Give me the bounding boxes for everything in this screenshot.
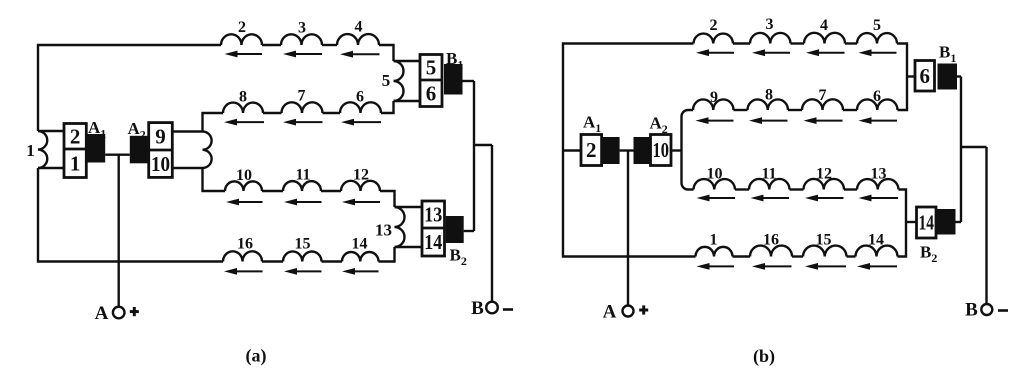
wire: B branch horizontal (a) bbox=[474, 144, 492, 146]
arrow under coil 8 (a) bbox=[224, 119, 264, 126]
coil 10 (a) bbox=[225, 181, 262, 191]
arrow under coil 16 (b) bbox=[752, 263, 792, 270]
brush B2 (a, black) bbox=[446, 216, 464, 243]
coil 7 (b) bbox=[802, 99, 843, 110]
svg-text:13: 13 bbox=[871, 166, 887, 183]
wire: (b) stub box 10 to bracket bbox=[671, 149, 682, 151]
arrow under coil 7 (b) bbox=[804, 117, 843, 124]
coil 2 (b) bbox=[694, 34, 734, 44]
coil 11 (b) bbox=[749, 179, 790, 190]
wire: B1 brush lead right (a) bbox=[463, 80, 475, 82]
wire: (a) row4 seg 15-16 bbox=[262, 260, 283, 262]
svg-text:9: 9 bbox=[710, 89, 718, 106]
wire: (a) row2 seg 7-8 bbox=[263, 112, 282, 114]
coil 16 (b) bbox=[750, 246, 792, 257]
svg-text:1: 1 bbox=[710, 232, 718, 249]
wire: (a) top row segment + left bus upper bbox=[38, 45, 221, 131]
arrow under coil 3 (b) bbox=[752, 49, 790, 56]
wire: (b) top seg 4-5 bbox=[845, 42, 857, 44]
svg-text:10: 10 bbox=[151, 152, 170, 176]
svg-text:B2: B2 bbox=[920, 243, 937, 266]
svg-text:15: 15 bbox=[816, 232, 832, 249]
wire: A terminal lead (b) bbox=[627, 151, 629, 306]
coil 5 (b) bbox=[857, 33, 897, 43]
svg-text:5: 5 bbox=[426, 55, 437, 79]
arrow under coil 9 (b) bbox=[696, 117, 734, 124]
coil 10 (b) bbox=[694, 179, 736, 189]
svg-text:A: A bbox=[603, 302, 617, 323]
svg-text:6: 6 bbox=[920, 64, 931, 88]
svg-text:2: 2 bbox=[710, 17, 718, 34]
wire: (b) top-right corner down to row2 bbox=[897, 44, 907, 111]
coil 3 (a) bbox=[281, 34, 322, 45]
coil 8 (a) bbox=[223, 103, 263, 113]
brush B2 (b, black) bbox=[937, 209, 956, 235]
brush A1 (b, black) bbox=[603, 137, 620, 164]
commutator segments 5/6 (a) bbox=[420, 55, 442, 107]
svg-text:3: 3 bbox=[766, 16, 774, 33]
coil 3 (b) bbox=[750, 33, 791, 44]
wire: (a) top row seg 3-4 bbox=[322, 44, 337, 46]
commutator segment 10 (b) bbox=[651, 135, 672, 166]
coil 4 (a) bbox=[337, 34, 379, 45]
wire: (b) stub to segment box 14 bbox=[906, 221, 917, 223]
coil 4 (b) bbox=[804, 33, 845, 44]
svg-text:1: 1 bbox=[26, 141, 35, 160]
wire: (b) row3 seg 10-11 bbox=[735, 188, 749, 190]
wire: (a) mid riser down to row3 + row3 first seg bbox=[203, 168, 226, 191]
wire: (b) row4 seg 16-15 bbox=[792, 255, 803, 257]
commutator segment 2 (b) bbox=[581, 135, 602, 166]
commutator segments 13/14 (a) bbox=[422, 201, 445, 256]
terminal A (b) bbox=[623, 306, 634, 317]
svg-text:6: 6 bbox=[873, 88, 881, 105]
commutator segments 9/10 (a) bbox=[149, 123, 173, 178]
coil 16 (a) bbox=[223, 251, 262, 261]
arrow under coil 8 (b) bbox=[749, 117, 788, 124]
svg-text:15: 15 bbox=[295, 236, 311, 253]
wire: (b) row2 seg 8-7 bbox=[788, 109, 802, 111]
coil 13 (b) bbox=[857, 179, 899, 189]
wire: (b) row4 seg 1-16 bbox=[733, 255, 751, 257]
arrow under coil 16 (a) bbox=[224, 268, 263, 275]
wire: B2 brush lead (b) bbox=[956, 221, 962, 223]
svg-text:4: 4 bbox=[355, 19, 363, 36]
wire: (b) row4 seg 15-14 bbox=[847, 255, 856, 257]
coil between segments 9-10 (a) bbox=[203, 132, 212, 169]
arrow under coil 10 (a) bbox=[226, 199, 263, 206]
arrow under coil 3 (a) bbox=[283, 51, 322, 58]
wire: (a) row3 right corner down to box 13 stub bbox=[380, 191, 395, 207]
coil 11 (a) bbox=[283, 181, 321, 191]
svg-text:B: B bbox=[471, 298, 484, 319]
svg-text:10: 10 bbox=[653, 138, 670, 162]
wire: (a) row3 seg 10-11 bbox=[262, 190, 283, 192]
arrow under coil 13 (b) bbox=[859, 195, 899, 202]
label: minus sign (a) bbox=[503, 308, 513, 311]
svg-text:7: 7 bbox=[819, 87, 827, 104]
svg-text:14: 14 bbox=[352, 236, 368, 253]
svg-text:2: 2 bbox=[70, 124, 81, 148]
coil 15 (a) bbox=[283, 251, 322, 261]
svg-text:10: 10 bbox=[236, 167, 252, 184]
svg-text:13: 13 bbox=[375, 221, 392, 240]
coil 9 (b) bbox=[693, 99, 734, 110]
arrow under coil 7 (a) bbox=[283, 119, 323, 126]
wire: (a) stub coil1 bottom to box 1 bbox=[38, 167, 64, 169]
svg-text:A1: A1 bbox=[583, 113, 601, 136]
svg-text:A: A bbox=[95, 303, 109, 324]
wire: (a) row2 left corner down to box 9 stub bbox=[203, 113, 224, 132]
svg-text:4: 4 bbox=[820, 17, 828, 34]
coil 7 (a) bbox=[282, 102, 323, 113]
svg-text:5: 5 bbox=[873, 17, 881, 34]
wire: (a) stub box 10 to riser bbox=[172, 167, 202, 169]
brush A2 (a, black) bbox=[130, 136, 148, 164]
arrow under coil 2 (b) bbox=[696, 49, 734, 56]
wire: (a) stub to segment box 6 bbox=[394, 100, 421, 102]
wire: (b) stub left bus to box 2 bbox=[563, 149, 581, 151]
wire: (a) stub to segment box 14 bbox=[395, 246, 423, 248]
coil 14 (b) bbox=[856, 246, 898, 257]
coil 8 (b) bbox=[748, 99, 789, 110]
arrow under coil 15 (a) bbox=[284, 268, 322, 275]
svg-text:11: 11 bbox=[295, 167, 310, 184]
svg-text:B2: B2 bbox=[450, 246, 467, 269]
terminal A (a) bbox=[113, 307, 125, 319]
arrow under coil 10 (b) bbox=[697, 195, 736, 202]
arrow under coil 11 (a) bbox=[284, 199, 322, 206]
label: plus sign (b) bbox=[639, 305, 648, 314]
svg-text:A2: A2 bbox=[650, 114, 668, 137]
coil 2 (a) bbox=[221, 34, 262, 45]
svg-text:B: B bbox=[965, 300, 978, 321]
svg-text:2: 2 bbox=[586, 138, 597, 162]
wire: B terminal lead (b) bbox=[985, 147, 987, 304]
wire: (a) top-right corner down to box 5 level bbox=[379, 45, 394, 61]
brush A2 (b, black) bbox=[634, 137, 651, 164]
wire: (b) row2 seg 9-8 bbox=[734, 109, 748, 111]
wire: (a) top row seg 2-3 bbox=[262, 44, 281, 46]
svg-text:5: 5 bbox=[382, 71, 391, 90]
wire: B terminal lead (a) bbox=[491, 145, 493, 302]
commutator segment 6 (b) bbox=[915, 61, 935, 92]
coil 6 (a) bbox=[340, 102, 381, 113]
svg-text:14: 14 bbox=[868, 232, 884, 249]
arrow under coil 4 (a) bbox=[340, 51, 380, 58]
arrow under coil 6 (a) bbox=[341, 119, 381, 126]
coil 1 (b) bbox=[696, 247, 733, 257]
wire: A terminal lead (a) bbox=[117, 155, 119, 307]
wire: (b) row3 right corner down to row4 bbox=[898, 190, 907, 257]
svg-text:12: 12 bbox=[816, 166, 832, 183]
brush A1 (a, black) bbox=[87, 134, 105, 163]
wire: (a) row3 seg 11-12 bbox=[321, 190, 341, 192]
arrow under coil 11 (b) bbox=[751, 195, 790, 202]
wire: (a) row2 seg 6-7 bbox=[323, 112, 341, 114]
arrow under coil 15 (b) bbox=[805, 263, 846, 270]
label: plus sign (a) bbox=[130, 307, 139, 316]
arrow under coil 12 (a) bbox=[342, 199, 380, 206]
svg-text:13: 13 bbox=[424, 203, 442, 227]
wire: B1-B2 link vertical (a) bbox=[473, 81, 475, 231]
wire: (b) row2 seg 7-6 bbox=[843, 109, 857, 111]
terminal B (b) bbox=[981, 304, 992, 315]
svg-text:(a): (a) bbox=[246, 346, 267, 367]
coil 13 (a) vertical bbox=[395, 207, 405, 247]
svg-text:16: 16 bbox=[763, 232, 779, 249]
svg-text:8: 8 bbox=[765, 87, 773, 104]
svg-text:2: 2 bbox=[238, 19, 246, 36]
coil 12 (a) bbox=[341, 181, 380, 191]
arrow under coil 1 (b) bbox=[697, 263, 735, 270]
wire: (b) bracket row2-row3 left bbox=[682, 110, 694, 190]
commutator segment 14 (b) bbox=[917, 207, 937, 238]
svg-text:6: 6 bbox=[356, 89, 364, 106]
svg-text:3: 3 bbox=[298, 20, 306, 37]
wire: B1-B2 link vertical (b) bbox=[960, 77, 962, 223]
wire: (a) stub to segment box 5 bbox=[394, 60, 421, 62]
brush B1 (a, black) bbox=[444, 64, 463, 95]
coil 6 (b) bbox=[857, 99, 898, 110]
arrow under coil 2 (a) bbox=[225, 51, 263, 58]
arrow under coil 4 (b) bbox=[806, 49, 845, 56]
wire: (b) row3 seg 11-12 bbox=[790, 188, 804, 190]
arrow under coil 14 (a) bbox=[342, 268, 379, 275]
wire: (a) row4 seg 14-15 bbox=[322, 260, 343, 262]
wire: (b) top seg 3-4 bbox=[791, 42, 805, 44]
wire: A1 to A2 brush link (b) bbox=[620, 149, 634, 151]
wire: (b) stub to segment box 6 bbox=[907, 75, 915, 77]
svg-text:14: 14 bbox=[424, 230, 442, 254]
coil 12 (b) bbox=[804, 179, 845, 190]
svg-text:6: 6 bbox=[426, 81, 437, 105]
arrow under coil 6 (b) bbox=[859, 117, 898, 124]
arrow under coil 5 (b) bbox=[859, 49, 897, 56]
wire: (a) right vertical to row4 + row4 right seg bbox=[379, 247, 395, 262]
wire: B2 brush lead (a) bbox=[464, 230, 474, 232]
wire: (a) stub coil1 top to box 2 bbox=[38, 130, 64, 132]
coil 15 (b) bbox=[803, 246, 847, 257]
wire: (a) stub to segment box 13 bbox=[395, 206, 423, 208]
svg-text:8: 8 bbox=[239, 89, 247, 106]
commutator segments 2/1 (a) bbox=[64, 124, 86, 178]
wire: (b) row3 seg 12-13 bbox=[844, 188, 857, 190]
coil 1 (a) vertical bbox=[38, 131, 47, 168]
brush B1 (b, black) bbox=[938, 64, 958, 90]
svg-text:11: 11 bbox=[761, 166, 776, 183]
arrow under coil 12 (b) bbox=[805, 195, 844, 202]
wire: (b) top row first seg + left bus + row4 first seg bbox=[563, 44, 696, 257]
coil 5 (a) vertical bbox=[394, 61, 404, 101]
svg-text:7: 7 bbox=[298, 88, 306, 105]
svg-text:10: 10 bbox=[707, 166, 723, 183]
svg-text:14: 14 bbox=[919, 211, 935, 235]
wire: (a) left bus lower + bottom bus bbox=[38, 168, 223, 262]
svg-text:12: 12 bbox=[353, 167, 369, 184]
label: minus sign (b) bbox=[998, 309, 1008, 312]
svg-text:(b): (b) bbox=[753, 346, 775, 367]
coil 14 (a) bbox=[342, 252, 379, 261]
wire: B1 brush lead right (b) bbox=[957, 75, 961, 77]
svg-text:16: 16 bbox=[237, 236, 253, 253]
wire: (a) stub box 9 to riser bbox=[172, 130, 202, 132]
terminal B (a) bbox=[486, 302, 498, 314]
wire: (a) right vertical down to row2 + row2 right seg bbox=[381, 101, 394, 113]
wire: (b) top seg 2-3 bbox=[733, 42, 750, 44]
svg-text:B1: B1 bbox=[939, 43, 956, 66]
wire: B branch horizontal (b) bbox=[961, 146, 987, 148]
arrow under coil 14 (b) bbox=[857, 263, 897, 270]
svg-text:1: 1 bbox=[70, 151, 81, 175]
svg-text:9: 9 bbox=[155, 124, 166, 148]
wire: A1 to A2 brush link (a) bbox=[105, 153, 130, 155]
